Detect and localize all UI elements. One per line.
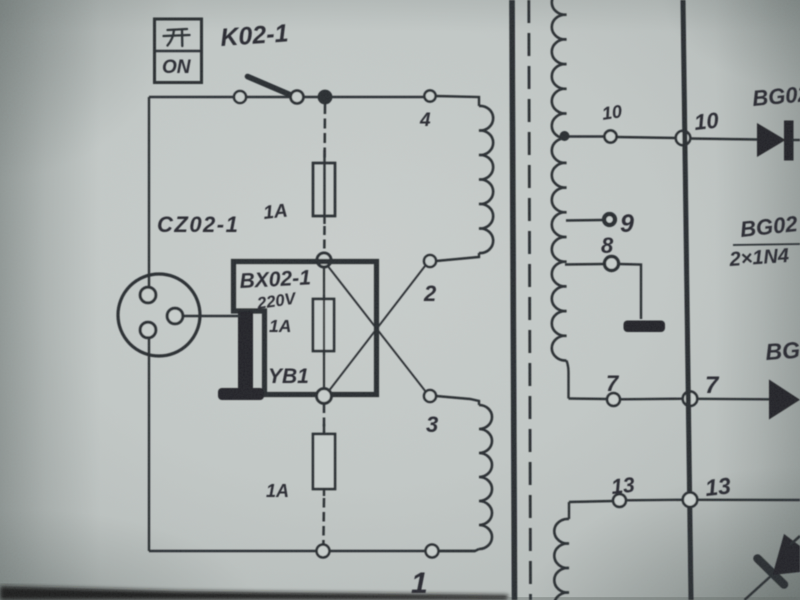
plug pin bottom — [140, 322, 156, 338]
fuse holder YB1 box outline (thick) — [234, 262, 377, 395]
transformer secondary winding lower — [554, 519, 569, 600]
mains plug CZ02-1 outline — [118, 274, 200, 356]
wire node3 to lower primary coil — [436, 396, 479, 405]
switch K02-1 lever — [248, 77, 294, 97]
wire diode out — [792, 139, 800, 141]
wire 7 to bus — [620, 398, 684, 401]
transformer primary upper winding — [479, 106, 493, 253]
wire row 13 to right edge — [697, 499, 800, 502]
plug prong bar vertical (thick) — [238, 311, 253, 391]
wire coil bottom to bottom row — [438, 549, 479, 551]
junction dot at switch output — [318, 90, 333, 105]
wire left vertical (mains left leg) — [148, 97, 150, 288]
wire coil to node 2 — [436, 253, 479, 261]
fuse F1 lead — [323, 150, 325, 224]
diagonal diode triangle — [773, 534, 800, 575]
diode BG02 (row 10) triangle — [757, 123, 786, 157]
switch K02-1 contact left — [234, 91, 246, 103]
wire winding end down to tap 7 row — [567, 361, 569, 399]
wire row 13 from winding — [569, 501, 613, 502]
wire plug to prong — [183, 315, 240, 318]
diagonal diode out wire — [790, 536, 800, 545]
wire tap10 — [565, 135, 605, 137]
fuse F1 body — [313, 163, 335, 216]
node 1 circle — [426, 545, 439, 558]
diode BG (row 7) triangle — [769, 380, 800, 420]
rectifier bus vertical line — [683, 0, 691, 600]
node 2 circle — [424, 255, 436, 267]
node circle top of YB1 — [317, 253, 331, 267]
transformer secondary winding lower lead — [568, 502, 570, 519]
transformer core line (solid) — [512, 0, 515, 600]
node circle bottom of YB1 — [317, 389, 332, 404]
plug pin right — [167, 308, 183, 324]
plug pin top — [140, 287, 156, 303]
glyph 开 (hand-drawn strokes) — [164, 29, 190, 46]
transformer shield line (dashed) — [529, 0, 531, 600]
wire tap 9 — [566, 219, 602, 222]
terminal circle 10 — [605, 131, 617, 143]
crossover wire node(top of YB1) to node 3 — [327, 265, 426, 392]
plug prong bar horizontal (thick) — [218, 388, 264, 400]
terminal circle 13 — [613, 494, 626, 507]
bus junction circle row 13 — [683, 493, 697, 507]
switch K02-1 contact right — [291, 91, 304, 104]
node 3 circle — [424, 390, 436, 402]
wire row 7 — [569, 397, 607, 400]
paper grain — [0, 0, 1, 1]
node 4 circle — [424, 90, 435, 101]
bus junction circle row10 — [676, 131, 690, 145]
fuse F2 body — [313, 299, 334, 351]
diagonal diode cathode bar — [758, 559, 785, 585]
wire bus to diode BG02 — [690, 139, 757, 140]
fuse F3 body — [313, 434, 335, 489]
diode BG02 (row 10) cathode bar — [784, 121, 794, 161]
bottom photo shadow band — [0, 586, 508, 600]
fuse F2 lead top — [323, 266, 325, 392]
junction dot tap 10 — [560, 131, 570, 141]
terminal circle 7 — [607, 393, 620, 406]
wire node4 to primary coil — [436, 96, 479, 106]
dashed neutral column to YB1 — [323, 226, 326, 254]
switch indicator box 开/ON — [155, 19, 202, 83]
diagonal diode (bottom right) anode wire — [745, 575, 773, 600]
wire 13 to bus — [626, 499, 684, 502]
wire bottom row — [149, 550, 475, 552]
ground bar (chassis) — [624, 321, 666, 333]
terminal circle 9 — [604, 214, 615, 225]
wire top row — [149, 96, 234, 98]
wire 8 to ground — [619, 264, 641, 319]
wire bus to diode BG (row 7) — [697, 398, 769, 401]
wire 10 to bus — [617, 137, 676, 138]
bus junction circle row 7 — [683, 392, 697, 406]
dashed neutral column top — [323, 104, 326, 160]
crossover wire node(bottom of YB1) to node 2 — [328, 266, 425, 392]
dashed column to bottom row — [322, 498, 325, 544]
fuse F3 lead — [323, 424, 325, 496]
dashed column below YB1 — [323, 404, 326, 432]
transformer secondary winding upper — [552, 0, 567, 361]
transformer primary lower winding — [479, 405, 492, 549]
terminal circle 8 — [605, 257, 619, 271]
wire tap 8 — [565, 263, 604, 266]
junction circle bottom row at fuse column — [317, 545, 330, 558]
